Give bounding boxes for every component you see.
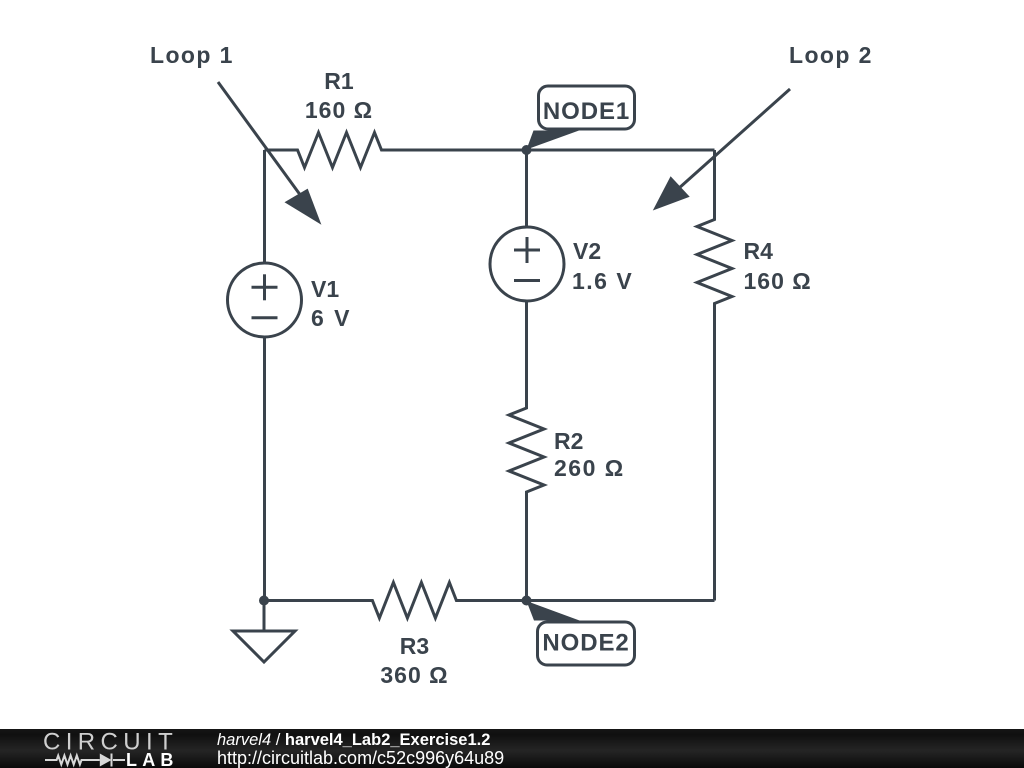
svg-text:R2: R2 (554, 428, 583, 454)
svg-text:V1: V1 (311, 276, 339, 302)
svg-text:Loop 2: Loop 2 (789, 42, 873, 68)
svg-text:R4: R4 (744, 238, 774, 264)
svg-text:1.6 V: 1.6 V (572, 268, 633, 294)
svg-text:160 Ω: 160 Ω (305, 97, 373, 123)
svg-text:NODE2: NODE2 (542, 630, 629, 657)
svg-text:260 Ω: 260 Ω (554, 455, 625, 481)
svg-text:LAB: LAB (126, 750, 179, 768)
svg-text:6 V: 6 V (311, 305, 352, 331)
svg-text:160 Ω: 160 Ω (744, 268, 812, 294)
svg-text:360 Ω: 360 Ω (380, 662, 448, 688)
svg-text:NODE1: NODE1 (543, 98, 630, 125)
svg-text:R3: R3 (400, 633, 429, 659)
svg-text:R1: R1 (324, 68, 354, 94)
svg-text:harvel4 / harvel4_Lab2_Exercis: harvel4 / harvel4_Lab2_Exercise1.2 (217, 731, 490, 749)
svg-text:Loop 1: Loop 1 (150, 42, 234, 68)
svg-text:http://circuitlab.com/c52c996y: http://circuitlab.com/c52c996y64u89 (217, 748, 504, 768)
svg-text:V2: V2 (573, 238, 601, 264)
